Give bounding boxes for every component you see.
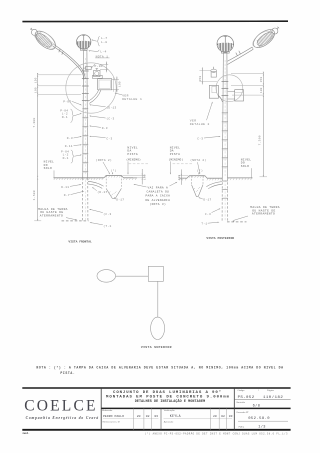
bolt with head (left of pole, detail 2) <box>211 67 217 77</box>
dimension 100 right of left caixa <box>123 169 147 184</box>
svg-text:Folha: Folha <box>239 426 245 428</box>
label P-04 with leader to arm clamp <box>91 64 103 68</box>
text VAI PARA A CANALETA OU PARA A CAIXA DE ALVENARIA (NOTA 3) <box>133 182 177 206</box>
extension lines left (heights) <box>38 75 82 95</box>
dimension 150 left of detail 2 <box>199 67 217 84</box>
svg-text:COELCE: COELCE <box>24 398 97 415</box>
label NIVEL DA PISTA MINIMO (left) <box>126 146 149 174</box>
conduit straps D-11 on pole (left view) <box>82 108 88 172</box>
title block middle separator <box>101 407 290 409</box>
label MALHA DE TERRA OU HASTE DE ATERRAMENTO (left) <box>38 208 77 220</box>
svg-text:052.58.0: 052.58.0 <box>248 417 270 421</box>
top view luminaire ellipse (left) <box>97 270 148 283</box>
label (C-3 right of pole (left view) <box>89 116 114 121</box>
svg-text:D-3: D-3 <box>67 137 73 140</box>
svg-text:D-11: D-11 <box>61 186 69 189</box>
dimension line right vertical with arrows <box>260 72 268 177</box>
svg-text:VISTA FRONTAL: VISTA FRONTAL <box>68 240 92 243</box>
date cell dividers left <box>133 408 151 429</box>
svg-text:D-7: D-7 <box>64 194 70 197</box>
label (T-1 (left view) <box>90 222 112 228</box>
labels P-04 L-2 N-1 (upper-left of pole) with brace <box>60 109 82 123</box>
svg-text:100: 100 <box>144 174 147 180</box>
svg-text:T-1: T-1 <box>201 223 207 226</box>
arm clamp fitting on pole <box>83 67 92 70</box>
svg-text:Aprovado: Aprovado <box>164 421 174 424</box>
label NIVEL DO SOLO (right view) <box>241 158 252 177</box>
label (NOTA 2) right view <box>190 158 206 174</box>
luminaire head (right, tilted) <box>250 26 278 51</box>
label (NOTA 2) left view with arrow <box>96 158 112 175</box>
svg-text:C-3: C-3 <box>106 137 112 140</box>
date cell dividers right <box>211 408 227 429</box>
svg-text:D-17: D-17 <box>116 199 124 202</box>
svg-text:VER: VER <box>122 94 129 97</box>
svg-text:PISTA: PISTA <box>127 153 138 156</box>
svg-text:100: 100 <box>178 174 181 180</box>
svg-text:(C-3: (C-3 <box>106 117 114 121</box>
photocell relay (right view globe) <box>217 36 234 53</box>
svg-text:C-3: C-3 <box>205 213 211 216</box>
label NOTA 1 <box>95 55 109 58</box>
thin line under codigo row <box>234 399 290 401</box>
pole P2 (vista posterior, above ground) <box>222 53 227 179</box>
ground hatching (left view) <box>54 176 137 180</box>
svg-text:SOLO: SOLO <box>241 165 249 168</box>
label C-3 right of pole (left view) <box>89 136 112 140</box>
arm joint collar (left view) <box>59 49 63 55</box>
label C-3 (right view base) <box>205 208 221 216</box>
title block bottom border <box>22 429 290 431</box>
svg-text:VAI PARA A: VAI PARA A <box>148 186 169 189</box>
svg-text:D-17: D-17 <box>203 199 211 202</box>
value PS-052 110/182 <box>238 395 284 400</box>
earth mesh dashed line (right view) <box>227 221 247 223</box>
bracket support rect (detail 2) <box>209 85 218 98</box>
label (*) left view <box>111 168 117 174</box>
label D-17 (left view funnel) <box>114 197 124 202</box>
svg-text:(T-1: (T-1 <box>103 224 111 228</box>
svg-text:(MINIMO): (MINIMO) <box>169 157 184 161</box>
label NIVEL DA PISTA MINIMO (right) <box>169 146 194 174</box>
buried caixa de alvenaria (left view, dashed) with funnel <box>106 175 121 198</box>
ground line (left view) with raised caixa top <box>54 175 138 177</box>
extension lines right side (heights) <box>231 74 263 96</box>
svg-text:DETALHE 1: DETALHE 1 <box>122 98 142 101</box>
conduit curve into pole (detail 2) <box>218 96 222 103</box>
signature line right cell <box>164 418 233 420</box>
svg-text:N-1: N-1 <box>62 116 68 119</box>
svg-text:20: 20 <box>137 414 141 418</box>
label (C-3 bottom (left view) <box>89 209 112 216</box>
conduit straps on pole (right view) <box>222 113 228 198</box>
label MALHA DE TERRA OU HASTE DE ATERRAMENTO (right) <box>233 206 280 222</box>
second dim line right of box (detail 1) <box>113 77 115 92</box>
svg-text:mod.: mod. <box>23 431 30 435</box>
dimension line left vertical with arrows <box>37 73 38 178</box>
svg-text:(*) ANEXO PI-PS-052-PADRÃO DE: (*) ANEXO PI-PS-052-PADRÃO DE DET INST E… <box>145 432 288 435</box>
svg-text:(C-3: (C-3 <box>103 212 111 216</box>
label (D-13 right of pole (left view) <box>89 104 116 109</box>
conduit curve pole to caixa (right view) <box>206 182 221 189</box>
svg-text:Companhia Energética do Ceará: Companhia Energética do Ceará <box>26 416 99 420</box>
pole clamps inside detail 2 <box>222 82 229 96</box>
svg-text:Código: Código <box>237 390 245 392</box>
svg-text:CONJUNTO DE DUAS LUMINÁRIAS A: CONJUNTO DE DUAS LUMINÁRIAS A 90° <box>113 390 222 395</box>
thin line under desenho number <box>238 420 288 422</box>
label D-11 below ground (left view) <box>61 184 81 189</box>
svg-text:D-11: D-11 <box>65 145 73 148</box>
svg-text:(D-13: (D-13 <box>106 105 116 109</box>
pole clamps inside detail 1 <box>82 71 89 101</box>
svg-text:03: 03 <box>154 414 158 418</box>
svg-text:(MINIMO): (MINIMO) <box>126 157 141 161</box>
luminaire arm bracket (left view curve) <box>52 44 85 79</box>
title block vertical divider logo/title <box>100 388 102 430</box>
top view luminaire ellipse (bottom) <box>151 281 165 339</box>
svg-text:1.500: 1.500 <box>33 190 36 200</box>
svg-text:PEDRO PAULO: PEDRO PAULO <box>103 414 124 418</box>
svg-text:03: 03 <box>229 414 233 418</box>
conduit curve pole to caixa (left view) <box>88 181 104 188</box>
detail callout circle 1 <box>66 63 116 113</box>
label T-1 (right view) <box>201 222 219 226</box>
pole P2 underground (dashed) <box>222 178 228 222</box>
label Desenho No and value 052.58.0 <box>237 411 271 421</box>
dimension line left underground 1.500 <box>34 178 41 221</box>
svg-text:100: 100 <box>118 81 121 87</box>
svg-text:100: 100 <box>260 87 263 93</box>
buried caixa (right view, dashed) with funnel <box>192 176 204 197</box>
earth mesh dashed line (left view) <box>62 220 89 222</box>
svg-text:N-1: N-1 <box>63 157 69 160</box>
label Codigo / Pagina <box>237 390 274 392</box>
svg-text:VER: VER <box>190 119 197 122</box>
svg-text:100: 100 <box>34 87 37 93</box>
conduit curve from box into pole (detail 1) <box>88 90 101 104</box>
label L-7 L-8 with brace and leader <box>91 36 107 46</box>
small dimension inside detail 1 (bolt height) <box>100 62 108 73</box>
svg-text:Emissão: Emissão <box>237 401 246 404</box>
labels P-04 L-2 N-1 (lower-left of pole) <box>61 150 82 163</box>
pole P1 (vista frontal, above ground) <box>83 50 88 178</box>
svg-text:150: 150 <box>199 76 202 82</box>
svg-text:KEYLA: KEYLA <box>170 414 181 418</box>
label C-3 mid (right view) <box>197 136 220 140</box>
label D-17 (right view funnel) <box>198 197 211 201</box>
svg-text:Eletricista Des. M: Eletricista Des. M <box>103 421 120 424</box>
svg-text:VISTA POSTERIOR: VISTA POSTERIOR <box>206 237 234 240</box>
svg-text:1/3: 1/3 <box>258 425 266 430</box>
label (D-17 mid (left view) <box>92 187 108 194</box>
ground hatching (right view) <box>179 176 252 181</box>
svg-text:(D-17: (D-17 <box>97 190 107 194</box>
svg-text:ATERRAMENTO: ATERRAMENTO <box>252 213 275 216</box>
svg-text:(NOTA 3): (NOTA 3) <box>150 202 166 206</box>
svg-text:02: 02 <box>146 414 150 418</box>
label Folha and value 1/3 <box>239 425 266 430</box>
label D-3 right of pole (left view) <box>89 126 108 130</box>
detail callout circle 2 <box>216 75 243 102</box>
photocell relay L-7 (left view globe) <box>77 35 91 51</box>
svg-text:ATERRAMENTO: ATERRAMENTO <box>40 215 63 218</box>
svg-text:(*): (*) <box>197 169 203 173</box>
svg-text:(NOTA 2): (NOTA 2) <box>190 158 206 162</box>
bracket plate inside detail 1 <box>93 75 103 78</box>
top view pole square <box>148 266 163 281</box>
svg-text:SOLO: SOLO <box>44 167 52 170</box>
svg-text:CANALETA OU: CANALETA OU <box>146 191 169 194</box>
svg-text:02: 02 <box>221 414 225 418</box>
pole P1 underground (dashed) <box>83 178 88 221</box>
equipment box right of pole (detail 2) <box>228 90 244 101</box>
svg-text:Verificação: Verificação <box>164 409 175 412</box>
ground line (right view) with raised caixa top <box>180 176 253 179</box>
svg-text:DETALHE 2: DETALHE 2 <box>190 123 210 126</box>
label VER DETALHE 1 with leader <box>115 93 143 101</box>
svg-text:7.300: 7.300 <box>258 135 261 145</box>
svg-text:NOTA : (*) : A TAMPA DA CAIXA: NOTA : (*) : A TAMPA DA CAIXA DE ALVENAR… <box>36 365 283 369</box>
label D-3 (left) <box>67 136 82 140</box>
label D-11 (left) <box>65 144 82 147</box>
svg-text:MONTADAS EM POSTE DE CONCRETO: MONTADAS EM POSTE DE CONCRETO 9.000mm <box>106 396 230 400</box>
svg-text:L-7: L-7 <box>101 37 107 40</box>
svg-text:D-3: D-3 <box>102 127 108 130</box>
luminaire cap nub (left) <box>30 28 37 35</box>
luminaire cap nub (right) <box>272 27 279 34</box>
svg-text:VISTA SUPERIOR: VISTA SUPERIOR <box>141 345 172 349</box>
bolt and socket box inside detail 1 <box>94 68 100 76</box>
divider between signature cells <box>160 408 162 429</box>
svg-text:PARA A CAIXA: PARA A CAIXA <box>145 195 170 198</box>
title block vertical divider title/codes <box>233 388 235 430</box>
svg-text:(NOTA 2): (NOTA 2) <box>96 158 112 162</box>
svg-text:6/8: 6/8 <box>253 404 261 409</box>
label D-7 (left view) <box>64 191 84 197</box>
svg-text:7.300: 7.300 <box>33 117 36 127</box>
svg-text:Desenho Nº: Desenho Nº <box>237 411 249 414</box>
label NIVEL DO SOLO (left view) <box>44 161 55 178</box>
svg-text:L-8: L-8 <box>101 41 107 44</box>
label (*) right view <box>197 169 203 175</box>
svg-text:150: 150 <box>260 77 263 83</box>
label P-07 with leader <box>63 101 82 106</box>
svg-text:Elaborado: Elaborado <box>102 409 113 412</box>
svg-text:PISTA: PISTA <box>170 153 181 156</box>
svg-text:L-4: L-4 <box>100 51 106 54</box>
label Emissao and value 6/8 <box>237 401 261 409</box>
svg-text:PS-052: PS-052 <box>238 396 255 400</box>
svg-text:110/182: 110/182 <box>263 395 283 400</box>
svg-text:150: 150 <box>34 77 37 83</box>
svg-text:DE ALVENARIA: DE ALVENARIA <box>145 199 170 202</box>
arm joint collar (right view) <box>236 51 241 56</box>
dimension 100 right of junction box <box>112 77 122 93</box>
svg-text:Página: Página <box>267 390 275 392</box>
svg-text:(*): (*) <box>111 168 117 172</box>
signature line left cell <box>103 418 159 420</box>
svg-text:C-3: C-3 <box>197 137 203 140</box>
dimension 100 left of right caixa <box>178 169 188 184</box>
label VER DETALHE 2 with leader <box>190 102 213 126</box>
svg-text:20: 20 <box>213 414 217 418</box>
frame top border line <box>22 20 288 22</box>
svg-text:P-07: P-07 <box>63 101 71 104</box>
label L-4 with leader to pole top <box>88 50 106 54</box>
junction box (caixa) inside detail 1 <box>98 79 112 90</box>
title block top border <box>22 387 290 389</box>
luminaire arm bracket (right view curve) <box>228 47 254 65</box>
svg-text:/: / <box>258 390 259 392</box>
svg-text:PISTA.: PISTA. <box>60 371 75 375</box>
luminaire head (left, tilted) <box>32 27 59 52</box>
